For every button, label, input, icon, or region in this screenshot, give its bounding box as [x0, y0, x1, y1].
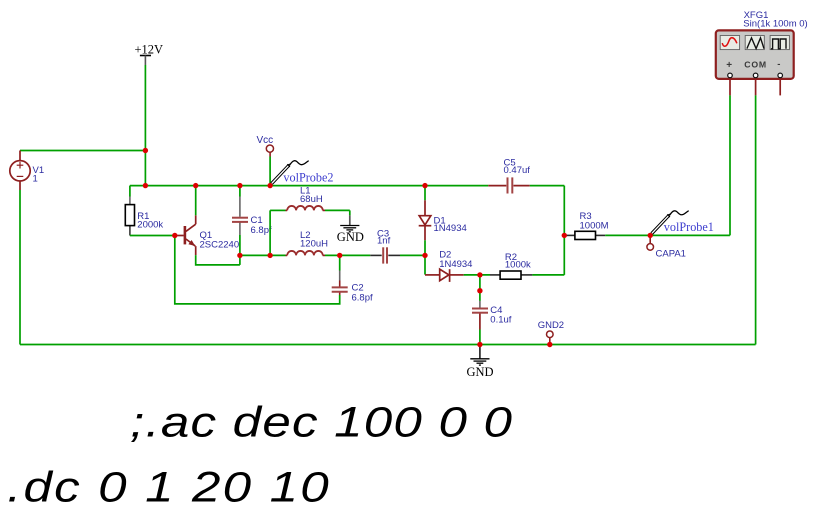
- resistor R1 leg wires: [129, 186, 131, 236]
- middle wire row: [240, 254, 425, 256]
- svg-text:+: +: [726, 60, 732, 71]
- node mid C2: [337, 253, 342, 258]
- svg-text:1nf: 1nf: [377, 236, 391, 247]
- capacitor C2: [332, 287, 348, 291]
- wire +12V vertical: [144, 65, 146, 186]
- node mid tank: [267, 253, 272, 258]
- inductor L1: [287, 206, 323, 210]
- capacitor C5: [508, 177, 513, 193]
- svg-text:COM: COM: [744, 60, 767, 70]
- svg-text:6.8pf: 6.8pf: [352, 293, 373, 304]
- voltage source V1: [10, 151, 30, 191]
- capacitor C1 leg wires: [239, 186, 241, 265]
- diode D1: [419, 216, 432, 226]
- node bus GND2: [547, 342, 552, 347]
- wire L1 to ground: [349, 210, 351, 225]
- ground GND (tank): [340, 226, 359, 232]
- terminal GND2: [547, 331, 554, 345]
- svg-text:GND2: GND2: [538, 320, 564, 331]
- inductor L2 leg wires: [286, 254, 326, 256]
- resistor R3 wires: [564, 234, 730, 236]
- svg-text:0.47uf: 0.47uf: [504, 165, 531, 176]
- resistor R1: [125, 205, 134, 226]
- wire tank vertical: [269, 210, 271, 255]
- capacitor C1: [232, 218, 248, 222]
- node R3: [562, 233, 567, 238]
- capacitor C4: [472, 309, 488, 313]
- wire XFG1 COM lead: [755, 79, 757, 345]
- svg-text:CAPA1: CAPA1: [656, 249, 686, 260]
- node mid C1: [237, 253, 242, 258]
- wire C4 branch: [479, 275, 481, 345]
- svg-text:GND: GND: [337, 230, 364, 244]
- node mid D1: [422, 253, 427, 258]
- svg-text:-: -: [777, 59, 780, 70]
- transistor Q1: [185, 215, 196, 255]
- inductor L2: [287, 251, 323, 255]
- diode D1 wires: [424, 186, 426, 256]
- wire D2 anode lead: [425, 274, 440, 276]
- wire XFG1 minus lead: [779, 79, 781, 96]
- junction dots: [143, 148, 653, 347]
- capacitor C3: [383, 247, 387, 263]
- terminal CAPA1: [647, 235, 654, 250]
- node D2 R2: [477, 272, 482, 277]
- resistor R3: [575, 231, 596, 239]
- wire emitter: [196, 255, 240, 265]
- probe volProbe1 icon: [650, 211, 688, 235]
- node bus Vcc: [267, 183, 272, 188]
- svg-text:0.1uf: 0.1uf: [490, 314, 511, 325]
- terminal Vcc: [266, 145, 273, 157]
- wire right bus vertical: [563, 186, 565, 275]
- diode D2: [440, 269, 450, 282]
- capacitor C2 leg wires: [339, 255, 341, 295]
- svg-text:2SC2240: 2SC2240: [200, 240, 240, 251]
- node bus collector: [193, 183, 198, 188]
- node V1/+12V: [143, 148, 148, 153]
- power flag +12V: [135, 43, 164, 66]
- svg-text:68uH: 68uH: [300, 194, 323, 205]
- node bus C4: [477, 342, 482, 347]
- svg-text:1000M: 1000M: [580, 220, 609, 231]
- triangle icon: [747, 38, 764, 49]
- wire R1 to base: [130, 235, 175, 237]
- wire base lead: [175, 235, 184, 237]
- node C4 top: [477, 288, 482, 293]
- node bus C1: [237, 183, 242, 188]
- wire base down: [175, 236, 340, 304]
- svg-text:1N4934: 1N4934: [439, 259, 472, 270]
- function generator XFG1 box: [716, 30, 794, 79]
- svg-text:volProbe1: volProbe1: [664, 220, 714, 234]
- svg-text:;.ac dec 100 0 0: ;.ac dec 100 0 0: [130, 398, 513, 446]
- bottom bus wire: [20, 344, 756, 346]
- wire V1 bottom vertical: [19, 190, 21, 345]
- svg-text:1: 1: [33, 174, 38, 185]
- svg-text:120uH: 120uH: [300, 239, 328, 250]
- ground GND (bottom): [470, 345, 489, 366]
- node bus +12V: [143, 183, 148, 188]
- svg-text:GND: GND: [467, 365, 494, 379]
- wire D2 cathode lead: [450, 274, 464, 276]
- node CAPA1: [648, 233, 653, 238]
- svg-text:1000k: 1000k: [505, 260, 531, 271]
- wire D2 to R2: [464, 274, 565, 276]
- node base: [172, 233, 177, 238]
- svg-text:1N4934: 1N4934: [434, 223, 467, 234]
- svg-text:.dc 0 1 20 10: .dc 0 1 20 10: [7, 463, 331, 511]
- wire Vcc down: [269, 157, 271, 186]
- node bus D1: [422, 183, 427, 188]
- square icon: [771, 39, 786, 49]
- terminal circles: [728, 73, 733, 78]
- wire V1 top horizontal: [20, 150, 145, 152]
- svg-text:+12V: +12V: [135, 43, 164, 57]
- inductor L1 leg wires: [270, 209, 350, 211]
- wire D1 junction down to D2: [424, 255, 426, 274]
- svg-text:Vcc: Vcc: [257, 135, 274, 146]
- wire XFG1 plus lead: [729, 79, 731, 236]
- resistor R2: [500, 271, 521, 279]
- svg-text:volProbe2: volProbe2: [283, 170, 333, 184]
- svg-text:6.8pf: 6.8pf: [251, 225, 272, 236]
- probe volProbe2 icon: [270, 161, 308, 185]
- svg-text:Sin(1k 100m 0): Sin(1k 100m 0): [743, 19, 807, 30]
- sine icon: [722, 38, 737, 47]
- wire collector: [195, 186, 197, 216]
- svg-text:2000k: 2000k: [137, 220, 163, 231]
- top bus wire: [130, 185, 564, 187]
